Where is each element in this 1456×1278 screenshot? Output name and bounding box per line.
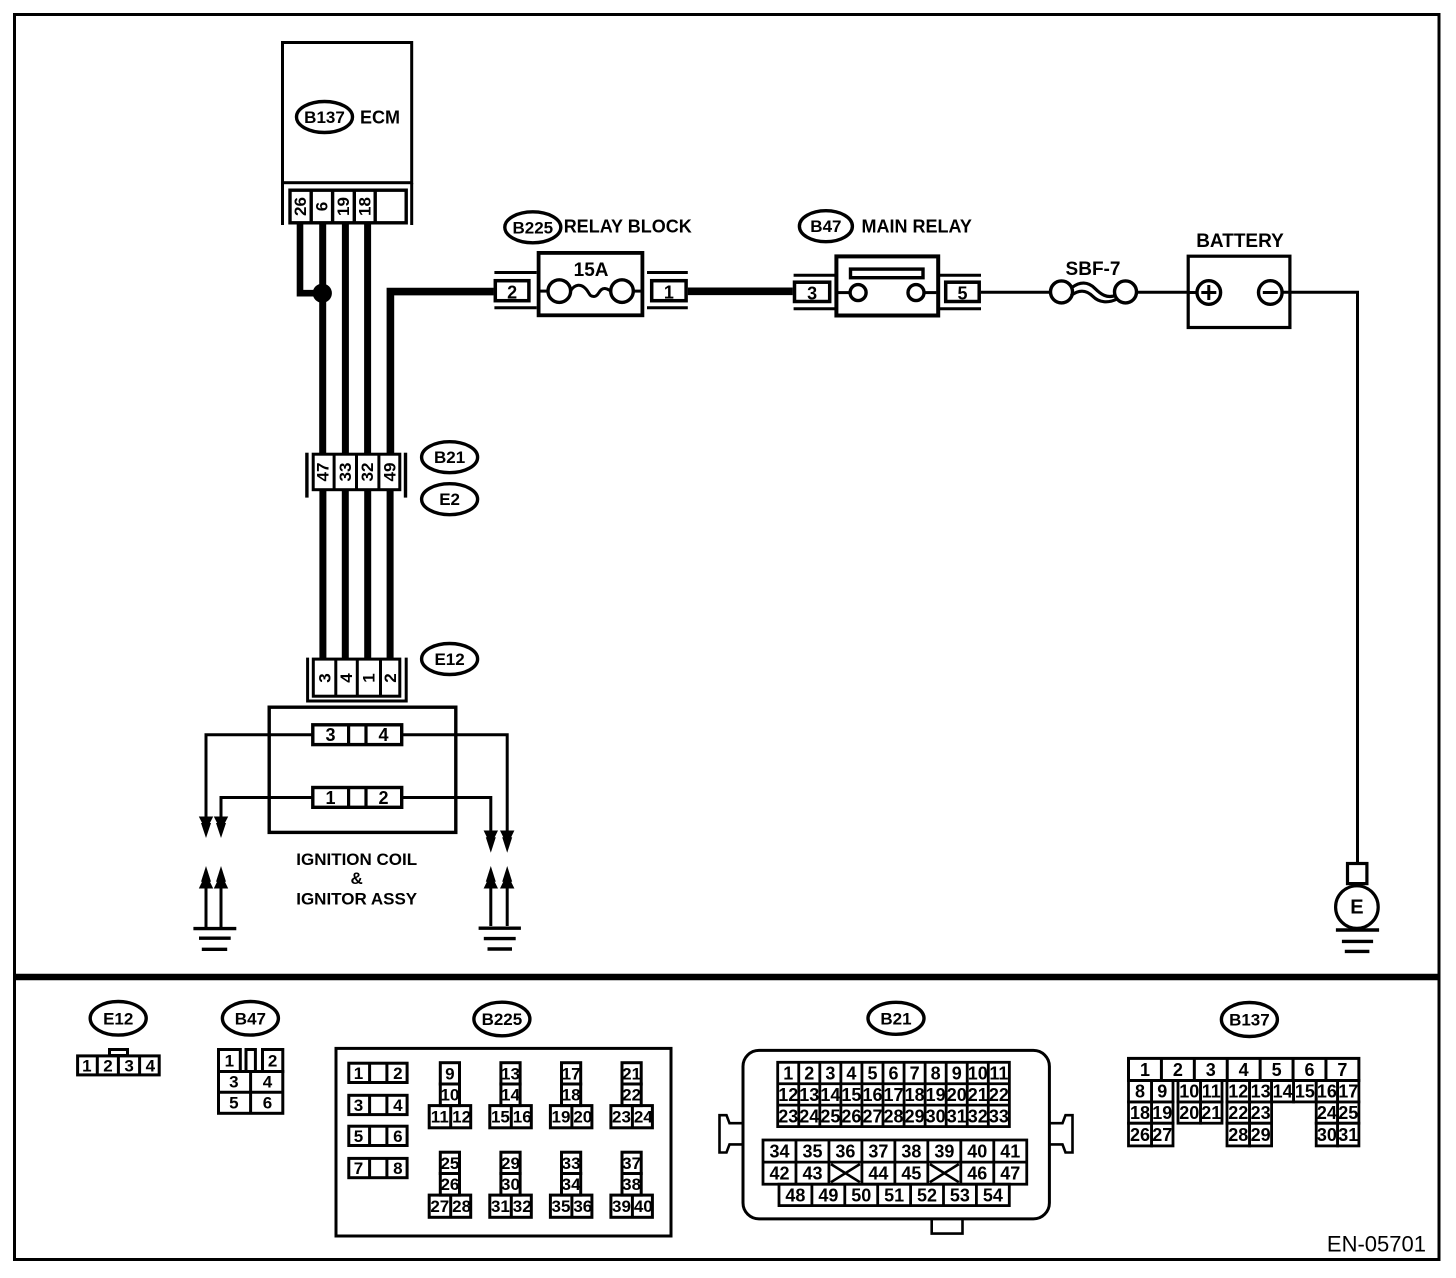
svg-text:24: 24 bbox=[1317, 1103, 1337, 1123]
svg-text:50: 50 bbox=[851, 1185, 871, 1205]
svg-text:29: 29 bbox=[501, 1154, 520, 1173]
svg-text:12: 12 bbox=[452, 1108, 471, 1127]
svg-text:25: 25 bbox=[1338, 1103, 1358, 1123]
connector label B21 oval (pinout) bbox=[868, 1002, 924, 1034]
svg-text:3: 3 bbox=[124, 1057, 133, 1076]
svg-text:31: 31 bbox=[491, 1197, 510, 1216]
svg-text:9: 9 bbox=[1157, 1082, 1167, 1102]
svg-text:33: 33 bbox=[562, 1154, 581, 1173]
B21 mounting ear right bbox=[1050, 1115, 1073, 1152]
ECM connector bracket left bbox=[281, 183, 284, 225]
main relay box bbox=[836, 256, 938, 315]
svg-text:B137: B137 bbox=[1229, 1011, 1270, 1030]
svg-text:1: 1 bbox=[1140, 1060, 1150, 1080]
B225 fuse cells 33-36 bbox=[562, 1152, 581, 1173]
spark gap arrow left B bbox=[214, 874, 228, 889]
svg-text:B21: B21 bbox=[434, 448, 465, 467]
connector label B137 oval (pinout) bbox=[1221, 1003, 1277, 1037]
svg-text:54: 54 bbox=[983, 1185, 1003, 1205]
B225 fuse cells 37-40 bbox=[622, 1152, 641, 1173]
svg-text:15: 15 bbox=[1295, 1082, 1315, 1102]
wire ECM pin 26 to junction bbox=[300, 224, 318, 293]
svg-text:37: 37 bbox=[622, 1154, 641, 1173]
connector B21/E2 bracket left bbox=[305, 453, 308, 498]
wire main relay pin 5 to fuse SBF-7 bbox=[981, 291, 1051, 294]
svg-text:B47: B47 bbox=[235, 1009, 266, 1028]
svg-text:14: 14 bbox=[1273, 1082, 1293, 1102]
connector B21 pinout body bbox=[743, 1050, 1049, 1219]
svg-text:32: 32 bbox=[358, 463, 377, 482]
svg-text:32: 32 bbox=[513, 1197, 532, 1216]
connector B21/E2 bracket right bbox=[404, 453, 407, 498]
ground right bbox=[479, 927, 521, 930]
svg-text:B137: B137 bbox=[304, 108, 345, 127]
svg-text:38: 38 bbox=[622, 1175, 641, 1194]
svg-text:31: 31 bbox=[1338, 1125, 1358, 1145]
wire B21 pin 47 to E12 pin 3 bbox=[319, 490, 326, 659]
relay coil bbox=[851, 269, 924, 278]
wire B21 pin 33 to E12 pin 4 bbox=[342, 490, 349, 659]
pin 3 of main relay bbox=[794, 274, 837, 277]
ECM box B137 bbox=[283, 43, 412, 183]
svg-text:MAIN RELAY: MAIN RELAY bbox=[862, 217, 972, 237]
svg-text:30: 30 bbox=[926, 1106, 946, 1126]
svg-text:49: 49 bbox=[381, 463, 400, 482]
svg-text:3: 3 bbox=[325, 725, 335, 745]
B225 fuse cells 17-20 bbox=[562, 1063, 581, 1084]
B21 pin grid middle rows 34-47 bbox=[763, 1140, 1027, 1184]
svg-text:37: 37 bbox=[868, 1142, 888, 1162]
wire relay block pin 2 to B21 pin 49 bbox=[390, 292, 493, 454]
svg-text:21: 21 bbox=[1201, 1103, 1221, 1123]
svg-text:7: 7 bbox=[354, 1159, 363, 1178]
connector B21/E2 pin row bbox=[313, 454, 400, 490]
wire battery to ground E bbox=[1282, 292, 1357, 862]
svg-text:6: 6 bbox=[393, 1127, 402, 1146]
svg-text:3: 3 bbox=[229, 1072, 238, 1091]
svg-text:2: 2 bbox=[1173, 1060, 1183, 1080]
svg-text:48: 48 bbox=[785, 1185, 805, 1205]
wire B21 pin 32 to E12 pin 1 bbox=[364, 490, 371, 659]
connector B137 pinout bbox=[1129, 1058, 1359, 1080]
svg-text:36: 36 bbox=[835, 1142, 855, 1162]
wire coil 1 to spark output bbox=[221, 798, 312, 817]
B21 mounting ear left bbox=[720, 1115, 743, 1152]
pin 2 of relay block bbox=[494, 271, 536, 274]
svg-text:22: 22 bbox=[1228, 1103, 1248, 1123]
svg-text:21: 21 bbox=[968, 1085, 988, 1105]
svg-text:B21: B21 bbox=[880, 1009, 911, 1028]
svg-text:45: 45 bbox=[901, 1164, 921, 1184]
spark gap arrow right A bbox=[484, 874, 498, 889]
svg-text:E2: E2 bbox=[439, 490, 460, 509]
connector B137 pin row bbox=[290, 190, 406, 223]
svg-text:36: 36 bbox=[573, 1197, 592, 1216]
svg-text:1: 1 bbox=[225, 1051, 234, 1070]
svg-text:3: 3 bbox=[1206, 1060, 1216, 1080]
svg-text:16: 16 bbox=[1317, 1082, 1337, 1102]
svg-text:11: 11 bbox=[1202, 1082, 1221, 1102]
svg-text:5: 5 bbox=[957, 284, 967, 304]
svg-text:41: 41 bbox=[1000, 1142, 1020, 1162]
svg-text:17: 17 bbox=[884, 1085, 904, 1105]
svg-text:20: 20 bbox=[947, 1085, 967, 1105]
svg-text:29: 29 bbox=[905, 1106, 925, 1126]
fuse element bbox=[541, 290, 549, 293]
connector E12 pinout bbox=[110, 1050, 128, 1056]
svg-text:43: 43 bbox=[802, 1164, 822, 1184]
wire relay block pin 1 to main relay pin 3 bbox=[688, 287, 793, 295]
connector label B137 oval bbox=[297, 102, 353, 133]
connector B47 pinout bbox=[219, 1050, 241, 1072]
svg-text:4: 4 bbox=[378, 725, 388, 745]
coil terminal strip 3/4 bbox=[313, 725, 402, 745]
svg-text:5: 5 bbox=[867, 1064, 877, 1084]
svg-text:27: 27 bbox=[862, 1106, 882, 1126]
svg-text:4: 4 bbox=[337, 673, 356, 683]
ECM connector bracket right bbox=[410, 183, 413, 225]
svg-text:26: 26 bbox=[1130, 1125, 1150, 1145]
B21 pin grid bottom row 48-54 bbox=[779, 1184, 1009, 1205]
wire coil 2 to spark output bbox=[403, 798, 491, 831]
svg-text:1: 1 bbox=[783, 1064, 793, 1084]
svg-text:39: 39 bbox=[612, 1197, 631, 1216]
svg-text:EN-05701: EN-05701 bbox=[1327, 1232, 1426, 1257]
svg-text:1: 1 bbox=[664, 283, 674, 303]
svg-text:21: 21 bbox=[622, 1064, 641, 1083]
main relay label B47 oval bbox=[799, 211, 852, 242]
spark gap arrow right B bbox=[500, 874, 514, 889]
svg-text:10: 10 bbox=[968, 1064, 988, 1084]
svg-text:33: 33 bbox=[336, 463, 355, 482]
svg-text:1: 1 bbox=[325, 788, 335, 808]
svg-text:ECM: ECM bbox=[360, 108, 400, 128]
wire ECM pin 18 to B21 pin 32 bbox=[364, 224, 371, 454]
svg-text:28: 28 bbox=[1228, 1125, 1248, 1145]
svg-text:15: 15 bbox=[841, 1085, 861, 1105]
svg-text:27: 27 bbox=[1152, 1125, 1172, 1145]
svg-text:3: 3 bbox=[807, 284, 817, 304]
svg-text:39: 39 bbox=[934, 1142, 954, 1162]
relay block label B225 oval bbox=[505, 212, 561, 243]
relay contacts bbox=[838, 291, 850, 294]
svg-text:26: 26 bbox=[841, 1106, 861, 1126]
svg-text:19: 19 bbox=[926, 1085, 946, 1105]
svg-text:7: 7 bbox=[1337, 1060, 1347, 1080]
svg-text:27: 27 bbox=[430, 1197, 449, 1216]
svg-text:2: 2 bbox=[381, 673, 400, 682]
svg-text:1: 1 bbox=[82, 1057, 91, 1076]
svg-text:15A: 15A bbox=[574, 260, 609, 281]
svg-text:13: 13 bbox=[799, 1085, 819, 1105]
svg-text:6: 6 bbox=[889, 1064, 899, 1084]
svg-text:20: 20 bbox=[1179, 1103, 1199, 1123]
svg-text:8: 8 bbox=[393, 1159, 402, 1178]
battery minus terminal bbox=[1259, 281, 1283, 305]
svg-text:20: 20 bbox=[573, 1108, 592, 1127]
svg-text:8: 8 bbox=[1135, 1082, 1145, 1102]
svg-text:17: 17 bbox=[1338, 1082, 1358, 1102]
svg-text:B225: B225 bbox=[512, 218, 553, 237]
B225 relay cells 7/8 bbox=[349, 1158, 407, 1177]
svg-text:7: 7 bbox=[910, 1064, 920, 1084]
svg-text:14: 14 bbox=[501, 1086, 520, 1105]
connector label B21 oval bbox=[422, 442, 478, 473]
spark gap arrow left A bbox=[199, 874, 213, 889]
svg-text:5: 5 bbox=[229, 1094, 238, 1113]
wire coil 3 to spark output bbox=[206, 735, 312, 817]
svg-text:35: 35 bbox=[802, 1142, 822, 1162]
B21 bottom tab bbox=[932, 1219, 963, 1234]
svg-text:2: 2 bbox=[804, 1064, 814, 1084]
svg-text:11: 11 bbox=[989, 1064, 1008, 1084]
svg-text:24: 24 bbox=[634, 1108, 653, 1127]
svg-text:31: 31 bbox=[947, 1106, 967, 1126]
svg-text:40: 40 bbox=[634, 1197, 653, 1216]
svg-text:B225: B225 bbox=[482, 1010, 523, 1029]
svg-text:10: 10 bbox=[1179, 1082, 1199, 1102]
svg-text:4: 4 bbox=[393, 1096, 403, 1115]
pin 1 of relay block bbox=[647, 271, 688, 274]
svg-text:B47: B47 bbox=[810, 217, 841, 236]
svg-text:1: 1 bbox=[354, 1064, 363, 1083]
svg-text:16: 16 bbox=[862, 1085, 882, 1105]
svg-text:34: 34 bbox=[562, 1175, 581, 1194]
svg-text:46: 46 bbox=[967, 1164, 987, 1184]
svg-text:13: 13 bbox=[501, 1064, 520, 1083]
B21 pin grid top rows 1-33 bbox=[778, 1062, 1010, 1126]
svg-text:14: 14 bbox=[820, 1085, 840, 1105]
pin 5 of main relay bbox=[940, 274, 981, 277]
svg-text:18: 18 bbox=[562, 1086, 581, 1105]
svg-text:4: 4 bbox=[846, 1064, 856, 1084]
svg-text:23: 23 bbox=[1251, 1103, 1271, 1123]
svg-text:BATTERY: BATTERY bbox=[1196, 231, 1284, 252]
svg-text:IGNITOR ASSY: IGNITOR ASSY bbox=[296, 890, 418, 909]
svg-text:33: 33 bbox=[989, 1106, 1009, 1126]
svg-text:28: 28 bbox=[452, 1197, 471, 1216]
svg-text:3: 3 bbox=[316, 673, 335, 682]
svg-text:30: 30 bbox=[1317, 1125, 1337, 1145]
svg-text:16: 16 bbox=[513, 1108, 532, 1127]
connector label E2 oval bbox=[422, 484, 478, 515]
wire ECM pin 6 to B21 pin 47 bbox=[319, 224, 326, 454]
svg-text:6: 6 bbox=[263, 1094, 272, 1113]
svg-text:10: 10 bbox=[440, 1086, 459, 1105]
svg-text:29: 29 bbox=[1251, 1125, 1271, 1145]
fuse box B225 bbox=[539, 253, 643, 315]
svg-text:53: 53 bbox=[950, 1185, 970, 1205]
svg-text:23: 23 bbox=[778, 1106, 798, 1126]
battery plus terminal bbox=[1188, 291, 1197, 294]
svg-text:42: 42 bbox=[769, 1164, 789, 1184]
B225 fuse cells 13-16 bbox=[501, 1063, 520, 1084]
connector label B225 oval (pinout) bbox=[474, 1002, 530, 1036]
ignition coil box bbox=[269, 707, 456, 832]
svg-text:SBF-7: SBF-7 bbox=[1066, 259, 1121, 280]
svg-text:26: 26 bbox=[440, 1175, 459, 1194]
svg-text:49: 49 bbox=[818, 1185, 838, 1205]
B225 relay cells 3/4 bbox=[349, 1095, 407, 1114]
svg-text:E12: E12 bbox=[434, 650, 464, 669]
svg-text:34: 34 bbox=[769, 1142, 789, 1162]
svg-text:&: & bbox=[351, 869, 363, 888]
svg-text:8: 8 bbox=[931, 1064, 941, 1084]
svg-text:30: 30 bbox=[501, 1175, 520, 1194]
wire SBF-7 to battery bbox=[1137, 291, 1189, 294]
svg-text:19: 19 bbox=[334, 197, 353, 216]
connector label E12 oval bbox=[422, 644, 478, 675]
svg-text:11: 11 bbox=[431, 1108, 449, 1127]
wire ECM pin 19 to B21 pin 33 bbox=[342, 224, 349, 454]
svg-text:2: 2 bbox=[103, 1057, 112, 1076]
svg-text:2: 2 bbox=[507, 283, 517, 303]
svg-text:22: 22 bbox=[989, 1085, 1009, 1105]
connector label B47 oval (pinout) bbox=[222, 1002, 278, 1036]
ground E bbox=[1348, 864, 1367, 884]
svg-text:40: 40 bbox=[967, 1142, 987, 1162]
svg-text:18: 18 bbox=[1130, 1103, 1150, 1123]
svg-text:28: 28 bbox=[884, 1106, 904, 1126]
svg-text:E: E bbox=[1350, 897, 1363, 919]
section divider bbox=[16, 974, 1439, 981]
B225 fuse cells 9-12 bbox=[440, 1063, 459, 1084]
svg-text:52: 52 bbox=[917, 1185, 937, 1205]
svg-text:2: 2 bbox=[393, 1064, 402, 1083]
svg-text:18: 18 bbox=[905, 1085, 925, 1105]
svg-text:4: 4 bbox=[146, 1057, 156, 1076]
svg-text:47: 47 bbox=[1000, 1164, 1020, 1184]
svg-text:6: 6 bbox=[1304, 1060, 1314, 1080]
svg-text:12: 12 bbox=[778, 1085, 798, 1105]
junction node bbox=[313, 284, 332, 303]
connector label E12 oval (pinout) bbox=[90, 1002, 146, 1036]
svg-text:17: 17 bbox=[562, 1064, 581, 1083]
svg-text:3: 3 bbox=[354, 1096, 363, 1115]
svg-text:2: 2 bbox=[378, 788, 388, 808]
wire coil 4 to spark output bbox=[403, 735, 508, 831]
svg-text:32: 32 bbox=[968, 1106, 988, 1126]
B225 relay cells 5/6 bbox=[349, 1126, 407, 1145]
svg-text:12: 12 bbox=[1228, 1082, 1248, 1102]
svg-text:19: 19 bbox=[1152, 1103, 1172, 1123]
svg-text:6: 6 bbox=[312, 202, 331, 211]
svg-text:19: 19 bbox=[552, 1108, 571, 1127]
svg-text:24: 24 bbox=[799, 1106, 819, 1126]
svg-text:25: 25 bbox=[820, 1106, 840, 1126]
svg-text:13: 13 bbox=[1251, 1082, 1271, 1102]
connector E12 bracket bbox=[308, 658, 407, 701]
svg-text:1: 1 bbox=[359, 673, 378, 682]
connector E12 pin row bbox=[313, 659, 400, 696]
wire B21 pin 49 to E12 pin 2 bbox=[387, 490, 394, 659]
svg-text:4: 4 bbox=[263, 1072, 273, 1091]
svg-text:26: 26 bbox=[291, 197, 310, 216]
svg-text:3: 3 bbox=[825, 1064, 835, 1084]
svg-text:25: 25 bbox=[440, 1154, 459, 1173]
B225 relay cells 1/2 bbox=[349, 1063, 407, 1082]
ground left bbox=[193, 927, 236, 930]
svg-text:22: 22 bbox=[622, 1086, 641, 1105]
svg-text:38: 38 bbox=[901, 1142, 921, 1162]
connector B225 pinout box bbox=[336, 1048, 671, 1236]
svg-text:9: 9 bbox=[445, 1064, 454, 1083]
svg-text:44: 44 bbox=[868, 1164, 888, 1184]
svg-text:E12: E12 bbox=[103, 1009, 133, 1028]
svg-text:18: 18 bbox=[355, 197, 374, 216]
B225 fuse cells 25-28 bbox=[440, 1152, 459, 1173]
B225 fuse cells 21-24 bbox=[622, 1063, 641, 1084]
svg-text:2: 2 bbox=[268, 1051, 277, 1070]
svg-text:RELAY BLOCK: RELAY BLOCK bbox=[564, 217, 692, 237]
svg-text:47: 47 bbox=[313, 463, 332, 482]
coil terminal strip 1/2 bbox=[313, 788, 402, 808]
svg-text:4: 4 bbox=[1239, 1060, 1249, 1080]
svg-text:5: 5 bbox=[354, 1127, 363, 1146]
svg-text:5: 5 bbox=[1272, 1060, 1282, 1080]
B225 fuse cells 29-32 bbox=[501, 1152, 520, 1173]
svg-text:9: 9 bbox=[952, 1064, 962, 1084]
svg-text:IGNITION COIL: IGNITION COIL bbox=[296, 850, 417, 869]
svg-text:51: 51 bbox=[884, 1185, 904, 1205]
svg-text:35: 35 bbox=[552, 1197, 571, 1216]
svg-text:23: 23 bbox=[612, 1108, 631, 1127]
svg-text:15: 15 bbox=[491, 1108, 510, 1127]
